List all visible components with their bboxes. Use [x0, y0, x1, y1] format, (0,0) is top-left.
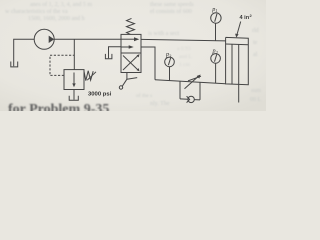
wire: branch down to relief valve	[73, 39, 75, 69]
check valve CV (ball)	[188, 96, 194, 102]
cylinder rod (left line)	[231, 44, 233, 84]
wire: pump suction line to tank	[14, 39, 35, 66]
DCV return spring (top)	[127, 18, 135, 34]
DCV upper cell arrow 1 (P to A)	[122, 38, 136, 40]
svg-text:a 0.93: a 0.93	[177, 46, 191, 52]
svg-text:w characteristics of the va: w characteristics of the va	[5, 8, 68, 15]
svg-text:te: te	[253, 40, 258, 46]
svg-text:1500, 1600, 2000 and h: 1500, 1600, 2000 and h	[28, 16, 85, 22]
svg-text:these same speeds: these same speeds	[150, 2, 194, 8]
cylinder C (barrel)	[226, 37, 249, 84]
wire: p1 gauge stub	[215, 23, 217, 41]
adjustment slash	[188, 76, 201, 81]
check valve seat	[187, 96, 190, 102]
wire: relief valve drain	[73, 90, 75, 100]
relief valve internal arrow	[73, 73, 75, 85]
wire: p3 gauge stub	[169, 67, 171, 81]
wire: p2 gauge stub	[215, 63, 217, 83]
relief valve V1 (body)	[64, 70, 84, 90]
pilot line (dashed)	[50, 55, 74, 75]
relief valve spring	[84, 71, 93, 81]
tank T3 (DCV return)	[105, 54, 112, 59]
svg-text:el consists of 600: el consists of 600	[150, 8, 192, 15]
svg-text:of the s: of the s	[136, 92, 152, 99]
svg-text:anes of 1, 2, 3, 4, and 5 m: anes of 1, 2, 3, 4, and 5 m	[30, 1, 92, 8]
pump P (circle)	[34, 29, 54, 49]
cylinder rod (right line, extends out)	[238, 44, 240, 102]
DCV upper cell arrow 2 (T to B)	[122, 46, 130, 48]
DCV divider	[121, 52, 141, 54]
svg-text:sum: sum	[251, 88, 261, 94]
wire: DCV port B to lower rail	[141, 47, 155, 80]
bleed-through text (reverse page), decorative	[5, 1, 262, 107]
flow control valve FC (adjustable orifice arrow)	[185, 77, 199, 89]
wire: pump discharge to DCV	[54, 38, 121, 40]
cut-off caption at bottom	[8, 102, 109, 117]
svg-text:nly. The: nly. The	[150, 101, 170, 107]
wire: lower rail to cylinder rod end	[155, 80, 226, 84]
DCV U1 (4-way 2-position valve body)	[121, 34, 141, 72]
tank T1 (pump suction reservoir)	[11, 62, 18, 67]
tank T2 (relief drain)	[69, 96, 78, 100]
DCV manual lever	[126, 73, 128, 80]
wire: DCV tank port to tank	[109, 47, 122, 59]
svg-text:1 cm: 1 cm	[179, 62, 191, 68]
svg-text:is with a sect: is with a sect	[148, 31, 179, 37]
cylinder piston	[226, 43, 249, 46]
svg-text:al: al	[253, 52, 258, 58]
svg-text:and L: and L	[179, 54, 192, 60]
bypass branch right drop	[199, 82, 201, 100]
gauge P2	[211, 54, 221, 64]
svg-text:3000 psi: 3000 psi	[88, 92, 112, 98]
svg-text:00 L: 00 L	[250, 97, 262, 103]
svg-text:rld: rld	[252, 28, 259, 34]
pump outlet triangle	[49, 36, 55, 43]
wire: bypass bottom	[180, 98, 188, 100]
bypass branch left drop	[179, 81, 181, 99]
gauge P1	[211, 13, 221, 23]
DCV lower cell crossed arrows	[123, 56, 138, 71]
gauge P3	[165, 57, 175, 67]
wire: DCV port A to cylinder cap end	[141, 39, 226, 41]
svg-text:for Problem 9-35: for Problem 9-35	[8, 102, 109, 111]
paper background	[0, 0, 266, 111]
